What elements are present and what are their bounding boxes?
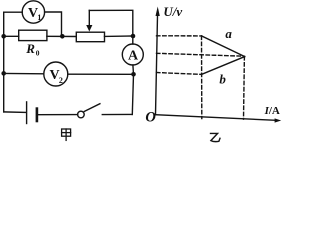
- rheostat slider arrow: [86, 10, 92, 31]
- wire junction to ammeter: [132, 36, 134, 44]
- voltmeter V2: [44, 62, 68, 86]
- x-axis arrowhead: [275, 118, 282, 122]
- wire left vertical main: [3, 12, 5, 112]
- wire ammeter bottom: [132, 65, 135, 74]
- switch S: [78, 104, 100, 118]
- ammeter A: [122, 44, 143, 65]
- dashed guide middle: [157, 53, 245, 56]
- wire right vertical down: [132, 74, 133, 114]
- label jia: [62, 129, 71, 140]
- battery: [27, 102, 37, 124]
- svg-text:0: 0: [36, 49, 40, 58]
- y-axis U: [156, 16, 158, 115]
- y-axis arrowhead: [156, 7, 160, 17]
- wire top-left to V1: [4, 11, 23, 13]
- svg-text:A: A: [128, 49, 139, 64]
- svg-text:O: O: [145, 110, 156, 126]
- svg-text:2: 2: [59, 76, 63, 85]
- svg-text:1: 1: [37, 13, 41, 22]
- x-axis I: [156, 115, 276, 121]
- dashed vertical at meeting point: [243, 57, 246, 120]
- dashed guide bottom: [157, 73, 202, 75]
- svg-text:a: a: [225, 26, 232, 41]
- svg-text:I/A: I/A: [264, 105, 280, 117]
- junction node V1/rheostat: [60, 34, 65, 39]
- wire V1 right: [45, 12, 62, 36]
- junction node ammeter bottom: [131, 72, 136, 77]
- dashed vertical at line start: [201, 36, 203, 119]
- junction node at left of R0 row: [1, 34, 6, 39]
- wire V2 left: [4, 72, 44, 74]
- junction node ammeter top: [131, 34, 136, 39]
- junction node V2 left: [1, 71, 6, 76]
- svg-text:b: b: [219, 71, 226, 86]
- rheostat R: [76, 32, 104, 42]
- wire R0 row: [4, 35, 77, 37]
- wire switch to battery: [38, 114, 77, 116]
- wire bottom right to switch: [102, 113, 132, 115]
- svg-text:U/v: U/v: [163, 4, 182, 19]
- voltmeter V1: [22, 1, 44, 23]
- line b: [202, 57, 245, 75]
- wire rheostat right to junction: [105, 35, 133, 37]
- svg-text:R: R: [25, 41, 35, 56]
- label R0: [25, 41, 40, 58]
- dashed guide top: [157, 35, 202, 37]
- wire battery to left corner: [4, 111, 26, 114]
- label yi: [211, 133, 221, 141]
- wire slider top to right: [89, 10, 133, 36]
- resistor R0: [19, 30, 47, 40]
- wire V2 right: [68, 73, 134, 75]
- line a: [202, 36, 245, 57]
